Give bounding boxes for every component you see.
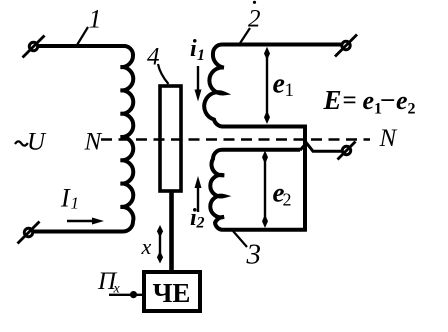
svg-text:1: 1 [89, 5, 102, 34]
svg-text:N: N [379, 125, 398, 152]
svg-text:2: 2 [248, 6, 261, 33]
svg-text:1: 1 [285, 80, 295, 101]
svg-text:I: I [60, 184, 71, 213]
svg-text:x: x [113, 282, 121, 297]
svg-text:2: 2 [196, 215, 205, 232]
svg-text:N: N [84, 129, 103, 156]
svg-text:2: 2 [283, 190, 292, 210]
svg-text:U: U [27, 129, 47, 156]
svg-text:e: e [273, 69, 285, 100]
svg-text:3: 3 [246, 239, 262, 271]
svg-text:e: e [396, 86, 408, 115]
svg-text:i: i [190, 36, 197, 62]
svg-text:=: = [343, 87, 357, 114]
svg-text:1: 1 [71, 194, 80, 213]
svg-text:E: E [323, 85, 342, 115]
svg-text:ЧЕ: ЧЕ [153, 278, 191, 308]
svg-text:–: – [381, 85, 395, 112]
svg-text:e: e [363, 86, 375, 115]
svg-text:2: 2 [408, 101, 416, 118]
svg-text:4: 4 [147, 44, 160, 71]
svg-text:x: x [141, 234, 152, 259]
svg-text:1: 1 [197, 47, 205, 64]
